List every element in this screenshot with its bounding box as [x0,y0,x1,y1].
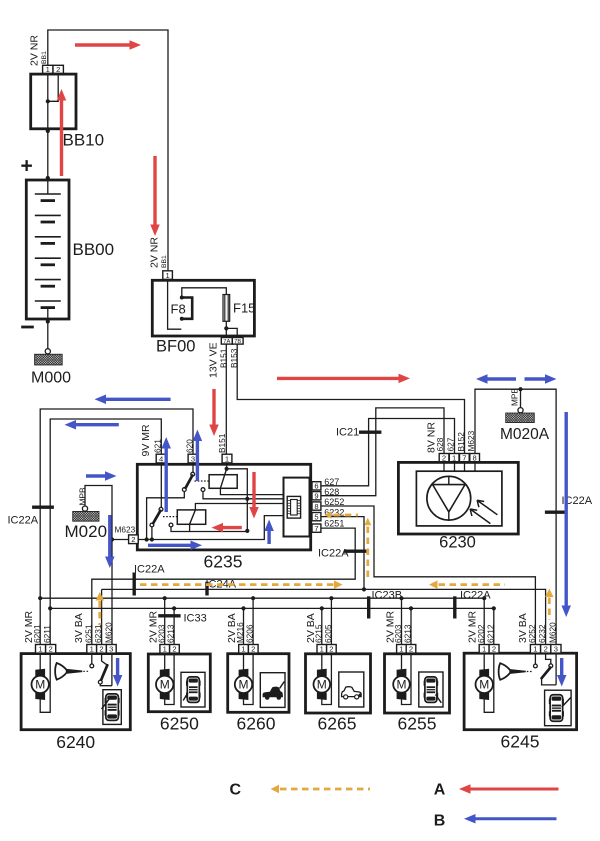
svg-text:9V MR: 9V MR [140,424,152,457]
svg-text:1: 1 [90,645,94,654]
svg-text:6232: 6232 [537,624,547,643]
car side view in 6260 [263,687,283,698]
wire 6235 pin 1 junction feed [226,463,228,469]
washer pump unit 6265 box [306,654,371,713]
svg-text:5: 5 [314,512,318,521]
wire 6235 pin 3 to upper switch [192,463,194,473]
flow arrow B (blue) inside 6245 [560,658,563,675]
wire M623 from 6230 pin 8 to M020A and 6245 [475,389,556,644]
svg-text:1: 1 [165,271,169,280]
svg-text:M000: M000 [31,369,71,386]
legend arrow B (blue) [476,817,557,820]
flow arrow B (blue) inside 6240 [116,658,119,675]
wire battery negative [47,308,49,349]
label battery minus [21,326,34,329]
contact link dots in 6240 [83,670,89,672]
svg-text:IC22A: IC22A [460,589,491,601]
flow arrow A (red) through BB10 [60,101,63,177]
connector block in 6235 [284,478,310,537]
svg-text:2: 2 [49,645,53,654]
svg-text:F15: F15 [233,301,255,316]
flow arrow A (red) inside 6235 left [223,526,242,529]
pointer line in 6245 [562,698,571,708]
wire 6203 riser (6250) [164,598,166,644]
flow arrow B (blue) upper left inner [76,423,119,426]
wire M623 rail inside 6235 [138,516,283,540]
svg-text:M620: M620 [104,622,114,643]
flow arrow A (red) along B153 [277,377,399,380]
svg-text:6251: 6251 [324,519,344,529]
car pictogram frame in 6260 [260,673,285,708]
wire B153 from 7B to 6230 pin 7 [237,344,464,453]
washer pump unit 6245 box [464,653,576,730]
svg-text:2: 2 [99,645,103,654]
svg-text:MPB: MPB [78,487,88,505]
wire B151 from 7A to 6235 pin 1 [225,344,227,454]
svg-text:1: 1 [399,645,403,654]
node M216 on 621 bus [241,606,245,610]
flow arrow B (blue) up beside pin 3 [196,441,199,481]
connector 1 2 on 6255 [397,645,407,654]
svg-text:M: M [239,678,249,692]
connector 1 2 on 6260 [239,645,249,654]
wire 6230 pin stubs [443,462,445,471]
svg-text:6255: 6255 [398,714,437,734]
node 6205 on 620 bus [329,596,333,600]
wire coil K2 bottom [189,524,191,531]
wire to 7B [226,328,237,337]
svg-text:1: 1 [482,645,486,654]
wire 6235 pin 4 to lower switch [160,463,162,508]
svg-text:6202: 6202 [476,624,486,643]
svg-text:6240: 6240 [56,732,95,752]
connector IC33 tick [158,614,180,617]
wire M620 pin into 6240 [111,654,113,686]
svg-text:M620: M620 [548,622,558,643]
svg-text:6252: 6252 [527,624,537,643]
connector IC21 [359,431,381,434]
connector IC24A tick [205,582,208,596]
ground M020 [82,506,87,511]
node right drop lower [245,529,249,533]
svg-text:3: 3 [191,454,195,463]
wire battery positive feed BB10 to BF00 (2V NR) [48,30,168,271]
svg-text:C: C [230,782,242,799]
dashed route C main line right segment [429,580,438,589]
connector 1 2 on 6250 [160,645,170,654]
pump symbol in 6230 [427,476,471,520]
pointer line in 6250 [183,693,188,701]
car pictogram frame in 6240 [103,690,121,725]
svg-text:6251: 6251 [83,624,93,643]
svg-text:+: + [21,155,33,178]
connector block pins detail [287,500,290,502]
svg-text:621: 621 [153,439,163,453]
svg-text:7A: 7A [223,339,230,345]
wire switch to M620 (6245) [542,678,557,685]
flow arrow B (blue) long right side [565,412,568,606]
node S2 left contact at M623 rail [150,537,154,541]
svg-text:1: 1 [533,645,537,654]
motor in 6250 [164,654,166,670]
pump 6230 inner box [416,471,502,526]
svg-text:M: M [397,678,407,692]
connector pins 2 1 7 8 on 6230 [439,454,449,462]
connector pins 6 9 8 5 7 on 6235 right [312,482,321,490]
node 6232 on bus [362,587,366,591]
node right drop upper [245,497,249,501]
wire switch to M620 (6240) [100,684,112,686]
svg-text:B151: B151 [217,433,227,453]
node 6203 on 620 bus [163,596,167,600]
node 6206 on 620 bus [251,596,255,600]
flow arrow B (blue) inside 6235 right [148,544,191,547]
wire 6252 from 6235 pin 8 to 6245 [321,506,536,645]
pointer line in 6255 [436,695,442,703]
svg-text:2: 2 [251,645,255,654]
svg-text:M623: M623 [466,430,476,451]
svg-text:IC22A: IC22A [318,547,349,559]
connector 1 2 on 6265 [317,645,327,654]
svg-text:628: 628 [324,487,339,497]
svg-text:1: 1 [320,645,324,654]
pump unit 6230 box [398,462,518,534]
car pictogram frame in 6250 [181,672,205,707]
flow arrow A (red) down B151 [212,389,215,425]
svg-text:IC22A: IC22A [134,563,165,575]
motor in 6260 [243,654,245,670]
svg-text:6230: 6230 [439,534,476,552]
legend dashed arrow C [271,785,280,794]
car pictogram frame in 6255 [419,672,443,707]
ground M000 [45,349,50,354]
wire F15 output [225,321,227,337]
svg-text:8: 8 [314,502,318,511]
wire 6252 pin to contact (6245) [534,653,536,664]
svg-text:1: 1 [38,645,42,654]
car pictogram frame in 6245 [545,690,572,726]
svg-text:MPB: MPB [509,388,519,406]
pointer line in 6240 [102,697,111,709]
connector pin 1 at BF00 [163,271,173,280]
motor in 6265 [321,654,323,670]
flow arrow A (red) top feed [75,43,130,46]
svg-text:3: 3 [554,645,558,654]
wire 6205 riser (6265) [330,598,332,644]
flow arrow B (blue) upper left outer [106,398,171,401]
flow arrow B (blue) at M020A left [488,377,517,380]
node below BB10 [46,129,50,133]
svg-text:6250: 6250 [160,713,199,733]
dashed route C at 6232 riser (6245) [545,589,554,598]
svg-text:6211: 6211 [42,625,52,643]
washer pump unit 6260 box [228,654,289,713]
motor in 6245 [483,653,485,669]
switch S2 (lower) in 6235 [159,507,163,511]
variable arrows in 6230 [477,500,497,515]
wire BB10 to battery [47,129,49,180]
connector IC22A (on 6251) [344,550,366,553]
svg-text:7B: 7B [234,339,241,345]
node 620 bus at 6201 [38,596,42,600]
connector IC22A tick (bottom right) [453,596,456,618]
svg-text:M: M [317,678,327,692]
washer jet in 6240 [55,663,67,680]
car side view in 6265 [342,687,362,697]
node 6203 (6255) on 620 bus [399,596,403,600]
svg-text:4: 4 [159,454,163,463]
svg-text:B152: B152 [456,432,466,452]
wire 6213 riser (6255) [410,608,412,644]
svg-text:6205: 6205 [323,624,333,643]
svg-text:2: 2 [492,645,496,654]
connector 7A 7B [221,338,232,345]
svg-text:1: 1 [163,645,167,654]
svg-text:BB00: BB00 [73,240,115,259]
connector 1 2 3 on 6245 [530,645,540,654]
svg-text:B: B [434,812,446,829]
connector BB1 pins at BB10 [43,65,53,73]
car top view in 6250 [186,681,189,686]
node M020A junction [518,387,522,391]
wire 627 from 6235 pin 6 to 6230 pin 1 [321,419,455,486]
node 6213 (6255) on 621 bus [409,606,413,610]
svg-text:6201: 6201 [32,624,42,643]
svg-text:IC21: IC21 [336,426,359,438]
connector 1 2 3 on 6240 [87,645,97,654]
wire S2 right contact to right drop [171,527,247,532]
svg-text:628: 628 [435,437,445,451]
svg-text:6: 6 [314,482,318,491]
connector IC22A (left) [32,506,54,509]
relay coil K1 (upper) in 6235 [209,475,237,489]
node 621 bus at 6211 [48,606,52,610]
node M623 junction [110,537,114,541]
connector pin 2 on 6235 [129,535,139,544]
wire S2 left contact drop [151,527,153,540]
node F15 output junction [224,326,228,330]
svg-text:2: 2 [409,645,413,654]
switch in 6240 [102,654,108,666]
fuse F8 [182,298,192,319]
washer pump unit 6250 box [148,654,210,712]
wire 6251 pin to contact (6240) [91,654,93,664]
svg-text:A: A [434,782,446,799]
wire 6231 riser [101,589,103,644]
svg-text:6213: 6213 [403,624,413,643]
connector pins 4 3 1 on 6235 [156,454,166,463]
svg-text:7: 7 [314,524,318,533]
svg-text:6265: 6265 [318,714,357,734]
wire bus 621 line [50,608,494,644]
flow arrow B (blue) at M020A right [525,377,546,380]
contact link dots in 6245 [527,671,533,673]
node 6202 on 620 bus [482,596,486,600]
node 6213 on 621 bus [172,606,176,610]
node 6215 on 621 bus [320,606,324,610]
wire 628 from 6235 pin 9 to 6230 pin 2 [321,408,444,496]
wire 6231-6232 line [102,589,546,644]
car top view in 6255 [424,681,427,686]
wire S1 right contact to connector [203,491,284,499]
svg-text:627: 627 [324,477,339,487]
dashed route C main line left segment [140,583,334,586]
wire 6232 from 6235 pin 5 to bus [321,517,364,590]
svg-text:2V NR: 2V NR [149,237,161,268]
car top view in 6240 [105,698,108,703]
svg-text:IC22A: IC22A [8,514,39,526]
connector IC23B tick [367,596,370,618]
svg-text:6215: 6215 [313,624,323,643]
wire coil K2 top to connector [195,504,283,510]
svg-text:M216: M216 [235,622,245,643]
node battery negative [46,319,50,323]
legend arrow A (red) [471,788,559,791]
dashed route C at 6235 pin 5 [324,511,331,519]
relay unit 6235 box [137,464,310,550]
svg-text:2: 2 [172,645,176,654]
wire BB10 internal pin 1 [47,74,49,129]
connector IC22A tick (on IC24A link) [132,573,135,596]
node BB10 internal junction [46,99,50,103]
svg-text:2: 2 [329,645,333,654]
svg-text:BF00: BF00 [156,338,195,356]
wire BF00 bus to fuses [182,288,227,296]
wire bus 620 line [40,598,484,644]
svg-text:6235: 6235 [204,552,243,572]
connector 1 2 on 6245 [479,645,489,654]
svg-text:2: 2 [544,645,548,654]
car top view in 6245 [549,699,552,704]
washer jet in 6245 [499,663,511,680]
svg-text:6260: 6260 [237,713,276,733]
svg-text:2: 2 [131,535,135,544]
washer pump unit 6255 box [385,654,450,713]
connector 1 2 on 6240 [36,645,46,654]
svg-text:M: M [479,678,489,692]
fuse box BF00 [152,280,254,336]
wire 620 from 6235 pin 3 to 6240 pin 1 [40,409,193,645]
ground M020A [520,389,522,407]
wire 621 from 6235 pin 4 to 6240 pin 2 [50,419,161,645]
svg-text:IC23B: IC23B [372,589,403,601]
svg-text:IC33: IC33 [184,612,207,624]
svg-text:6212: 6212 [485,624,495,643]
flow arrow A (red) down to BF00 [153,156,156,225]
washer pump unit 6240 box [21,654,130,730]
wire 6206 riser (6260) [252,598,254,644]
relay coil K2 (lower) in 6235 [177,510,205,524]
svg-text:BB10: BB10 [63,131,105,150]
svg-text:M: M [160,678,170,692]
node 6235 pin 1 junction [225,467,229,471]
svg-text:1: 1 [241,645,245,654]
svg-text:1: 1 [225,454,229,463]
flow arrow A (red) inside 6235 down [252,472,255,507]
connector IC22A (right) [545,511,567,514]
svg-text:M: M [35,678,45,692]
svg-text:F8: F8 [171,302,186,317]
battery BB00 [26,180,69,319]
motor in 6240 [39,654,41,670]
switch S1 (upper) in 6235 [191,472,195,476]
node 6212 on 621 bus [492,606,496,610]
svg-text:6231: 6231 [93,624,103,643]
svg-text:6245: 6245 [501,732,540,752]
flow arrow B (blue) at M620 junction [108,515,111,557]
wire M216 riser (6260) [243,608,245,644]
svg-text:6206: 6206 [245,624,255,643]
wire coil K1 bottom to connector [220,488,283,494]
svg-text:6213: 6213 [166,624,176,643]
svg-text:M020A: M020A [500,426,550,443]
svg-text:6203: 6203 [393,624,403,643]
dashed route C from 6231 riser [96,592,105,601]
wire BF00 feed from pin 1 [168,279,182,329]
wire BB10 internal pin 2 [48,74,58,102]
node left rail at M623 wire [145,537,149,541]
node battery positive [46,176,50,180]
svg-text:9: 9 [314,491,318,500]
svg-text:627: 627 [445,437,455,451]
switch in 6245 [546,653,551,664]
wire M020 to M623 junction [85,486,112,540]
fuse F15 [223,295,230,322]
wire M620 pin into 6245 [555,653,557,685]
flow arrow B (blue) up beside pin 4 [164,449,167,513]
svg-text:M623: M623 [115,525,136,535]
svg-text:2V NR: 2V NR [29,35,41,66]
dashed route C riser at 6235 [364,518,371,526]
wire M620 junction to 6240 pin 3 [111,540,113,645]
svg-text:BB1: BB1 [41,51,48,64]
wire 6251 from 6235 pin 7 to 6240 [92,528,355,644]
wire 6203 riser (6255) [401,598,403,644]
wire 6213 riser (6250) [173,608,175,644]
flow arrow B (blue) inside 6235 up [267,531,270,544]
svg-text:BB1: BB1 [161,255,168,268]
svg-text:M020: M020 [65,522,108,541]
motor in 6255 [401,654,403,670]
fuse box BB10 [31,74,76,129]
wire M623 junction to 6235 pin 2 [112,539,129,541]
flow arrow B (blue) at M020 [86,474,105,477]
wire 6215 riser (6265) [321,608,323,644]
wire pin1 junction to right drop [227,469,248,531]
svg-text:3: 3 [109,645,113,654]
car pictogram frame in 6265 [339,672,364,707]
wire S1 left contact to left rail [147,492,185,540]
